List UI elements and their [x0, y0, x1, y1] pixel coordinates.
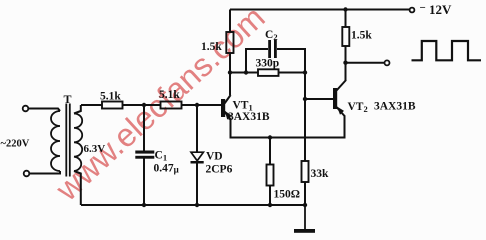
wire output tap — [346, 62, 385, 64]
node C1 bottom — [142, 203, 146, 207]
resistor R6 33k — [302, 161, 309, 182]
node C1 top — [142, 103, 146, 107]
wire VT2 base vertical — [304, 73, 306, 162]
wire VT2 collector upper — [345, 10, 347, 28]
wire base row segment 2 — [123, 104, 161, 106]
wire C1 upper lead — [143, 105, 145, 151]
capacitor C1 plates — [135, 151, 154, 159]
wire base row segment 3 — [182, 104, 222, 106]
capacitor C2 plates — [268, 40, 277, 58]
node ground junction — [303, 203, 307, 207]
transistor VT1 collector lead — [225, 95, 231, 104]
transistor VT1 emitter lead — [225, 112, 232, 121]
wire C2 bottom right segment — [279, 72, 306, 74]
svg-text:150Ω: 150Ω — [274, 189, 300, 201]
square wave symbol — [412, 41, 482, 60]
svg-text:5.1k: 5.1k — [159, 89, 180, 101]
wire secondary bottom lead — [74, 171, 81, 205]
diode VD triangle — [191, 152, 203, 161]
wire VD upper lead — [196, 105, 198, 153]
svg-text:6.3V: 6.3V — [84, 143, 106, 155]
wire secondary top lead — [74, 105, 81, 114]
resistor R2 5.1k — [161, 102, 182, 109]
diode VD cathode bar — [191, 161, 204, 164]
svg-text:0.47μ: 0.47μ — [154, 163, 179, 175]
svg-text:330p: 330p — [256, 58, 280, 70]
node VT2 base — [303, 97, 307, 101]
node VD bottom — [195, 203, 199, 207]
ground — [294, 205, 315, 233]
svg-text:12V: 12V — [429, 2, 452, 17]
node C2 left leg — [244, 70, 248, 74]
svg-text:5.1k: 5.1k — [100, 91, 121, 103]
input terminal upper — [23, 106, 29, 112]
wire C2 bottom left segment — [230, 72, 258, 74]
svg-text:3AX31B: 3AX31B — [228, 111, 270, 123]
svg-text:1.5k: 1.5k — [201, 41, 222, 53]
svg-text:2CP6: 2CP6 — [206, 164, 233, 176]
wire VD lower lead — [196, 164, 198, 206]
wire primary top lead — [29, 109, 61, 112]
resistor R3 1.5k — [226, 32, 233, 53]
wire 150ohm lower stub — [269, 186, 271, 206]
wire top supply rail — [230, 9, 410, 11]
supply terminal — [410, 8, 415, 13]
wire base row segment 1 — [81, 104, 102, 106]
svg-text:~220V: ~220V — [1, 139, 30, 150]
svg-text:VD: VD — [206, 151, 223, 163]
resistor R1 5.1k — [102, 102, 123, 109]
transistor VT2 emitter arrow — [337, 107, 344, 115]
svg-text:1.5k: 1.5k — [351, 30, 372, 42]
wire 33k lower stub — [304, 182, 306, 205]
wire C2 left leg — [246, 49, 268, 73]
input terminal lower — [24, 171, 30, 177]
svg-text:−: − — [420, 2, 426, 14]
node VT1 collector / C2 bottom — [228, 70, 232, 74]
output terminal — [385, 60, 390, 65]
resistor R4 feedback — [258, 69, 279, 76]
transformer T primary winding — [51, 111, 60, 171]
svg-text:C1: C1 — [155, 150, 168, 163]
wire VT2 collector lower — [345, 46, 347, 81]
wire VT2 base horizontal — [305, 98, 333, 100]
node emitter rail / 150ohm — [268, 135, 272, 139]
node top rail / VT2 collector — [343, 7, 347, 11]
wire emitter rail — [231, 116, 345, 138]
svg-text:VT2: VT2 — [348, 101, 368, 114]
resistor R7 1.5k — [342, 27, 349, 46]
transistor VT1 base bar — [221, 99, 225, 117]
wire VT1 collector branch upper — [229, 10, 231, 33]
transistor VT2 base bar — [333, 88, 337, 109]
svg-text:C2: C2 — [265, 29, 278, 42]
wire C2 right leg — [277, 49, 305, 73]
wire C1 lower lead — [143, 159, 145, 206]
transistor VT2 emitter lead — [337, 107, 346, 117]
wire VT1 collector branch lower — [229, 53, 231, 95]
node VD top — [195, 103, 199, 107]
svg-text:33k: 33k — [311, 168, 330, 180]
transistor VT1 emitter arrow — [225, 111, 232, 120]
svg-text:3AX31B: 3AX31B — [374, 101, 416, 113]
wire primary bottom lead — [30, 171, 61, 174]
node C2 right leg bottom — [303, 70, 307, 74]
transformer T secondary winding — [74, 114, 82, 172]
wire 150ohm upper stub — [269, 138, 271, 165]
transistor VT2 collector lead — [337, 80, 347, 91]
svg-text:T: T — [64, 92, 72, 106]
node output tap — [343, 61, 347, 65]
watermark — [49, 0, 272, 208]
transformer T core — [66, 104, 70, 177]
node 150ohm bottom — [268, 203, 272, 207]
wire bottom rail — [81, 204, 305, 206]
resistor R5 150ohm — [267, 165, 274, 186]
